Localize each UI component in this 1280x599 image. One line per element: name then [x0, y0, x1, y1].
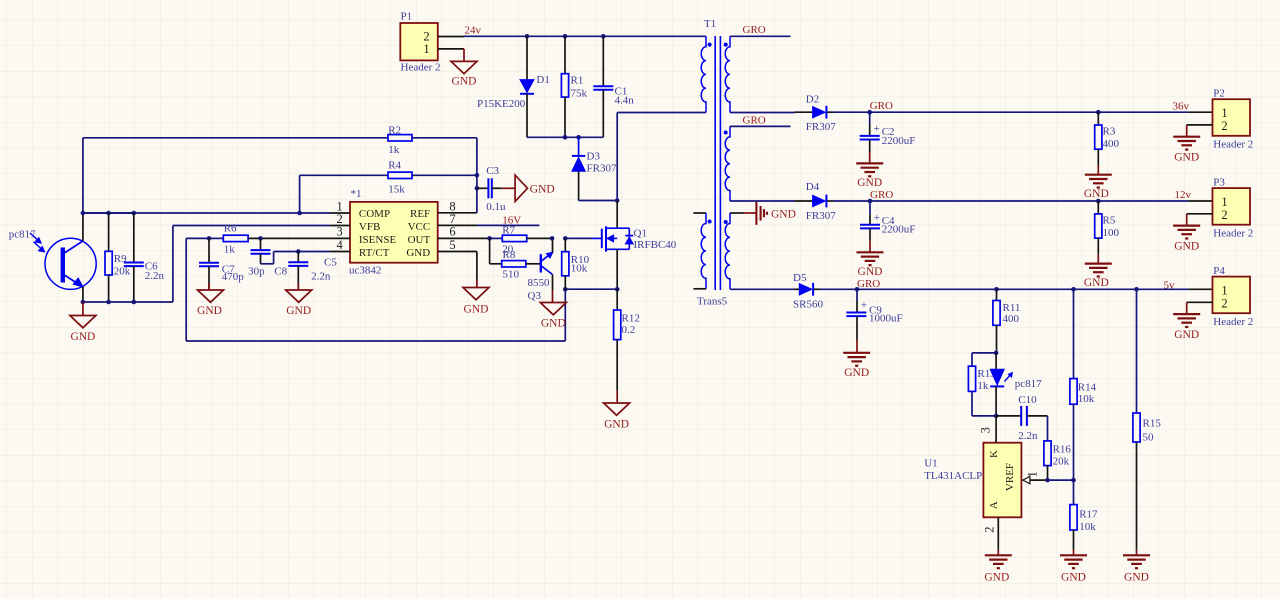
resistor R6 1k [223, 223, 330, 256]
svg-text:R14: R14 [1078, 382, 1097, 394]
capacitor C4 2200uF [860, 201, 915, 241]
pin 1 wire P1 [438, 48, 464, 50]
svg-text:P4: P4 [1213, 265, 1225, 277]
ground GND at R17 [1060, 550, 1087, 584]
svg-text:FR307: FR307 [587, 162, 617, 174]
node junction source/R12 [615, 287, 620, 292]
svg-text:COMP: COMP [359, 208, 390, 220]
resistor R7 20 [490, 225, 552, 256]
diode D3 FR307 [572, 137, 617, 200]
svg-text:GRO: GRO [743, 24, 766, 36]
net label 36v [1173, 101, 1190, 113]
svg-text:2: 2 [1221, 119, 1227, 133]
svg-text:1k: 1k [977, 380, 989, 392]
svg-text:GND: GND [604, 419, 629, 431]
connector P1 (Header 2) [400, 11, 440, 74]
pin 3 ISENSE [330, 225, 350, 239]
node junction R13/LED top [994, 351, 999, 356]
ground GND at R12 [604, 391, 630, 431]
svg-text:Header 2: Header 2 [1213, 316, 1253, 328]
wire 5v row [820, 288, 1188, 290]
svg-text:D1: D1 [536, 74, 549, 86]
transistor Q1 IRFBC40 MOSFET [565, 201, 676, 290]
capacitor C7 470p [199, 238, 244, 290]
svg-text:6: 6 [449, 225, 455, 239]
ground GND at U1 pin2 [984, 550, 1011, 584]
capacitor C9 1000uF [846, 289, 902, 340]
resistor R9 20k [105, 213, 131, 302]
wire R4 drop [299, 175, 301, 213]
resistor R16 20k [1044, 416, 1072, 480]
diode D1 P15KE200 [477, 36, 550, 137]
svg-text:SR560: SR560 [793, 299, 823, 311]
connector P2 (Header 2) [1188, 88, 1253, 151]
svg-text:GND: GND [464, 304, 489, 316]
svg-text:ISENSE: ISENSE [359, 234, 397, 246]
node junction emitter [81, 300, 86, 305]
node junction R16 bottom [1045, 478, 1050, 483]
wire W4 bottom to D4 [730, 200, 795, 202]
pin 4 RT/CT [330, 238, 350, 252]
pin 2 U1 [982, 517, 998, 549]
svg-text:*1: *1 [351, 188, 362, 200]
svg-text:D2: D2 [806, 94, 819, 106]
ground GND at P1 [451, 49, 477, 88]
connector P4 (Header 2) [1188, 265, 1253, 328]
svg-text:C10: C10 [1018, 394, 1037, 406]
svg-text:GND: GND [1174, 152, 1199, 164]
svg-text:P2: P2 [1213, 88, 1225, 100]
wire W1 bottom to drain column [617, 113, 706, 201]
svg-text:5: 5 [449, 238, 455, 252]
LED pc817 (opto diode) [990, 353, 1042, 416]
svg-text:GND: GND [1084, 277, 1109, 289]
pin 3 U1 [979, 416, 996, 443]
svg-text:Header 2: Header 2 [1213, 227, 1253, 239]
svg-text:FR307: FR307 [806, 210, 836, 222]
svg-text:+: + [874, 212, 880, 224]
wire W5 top to signal ground [730, 212, 744, 214]
transistor Q3 8550 [528, 240, 554, 302]
svg-text:20k: 20k [114, 266, 131, 278]
capacitor C5 2.2n [288, 252, 337, 291]
resistor R3 400 [1095, 112, 1120, 165]
node junction drain [615, 198, 620, 203]
wire source row [565, 288, 617, 290]
svg-text:GRO: GRO [857, 278, 880, 290]
net label GRO (C4) [870, 189, 893, 201]
svg-text:U1: U1 [924, 457, 937, 469]
connector P3 (Header 2) [1188, 176, 1253, 239]
resistor R2 1k [83, 124, 477, 213]
node junction R14 top [1071, 287, 1076, 292]
node junction R10 bottom [563, 287, 568, 292]
svg-text:1000uF: 1000uF [869, 313, 903, 325]
ground GND at C4 [857, 241, 884, 278]
svg-text:R16: R16 [1053, 444, 1072, 456]
node junction C5/RTCT [296, 249, 301, 254]
ground GND at P3 [1173, 214, 1212, 253]
ground bar-style GND at W5 [744, 202, 796, 225]
svg-text:2: 2 [337, 212, 343, 226]
wire W5 bottom to D5 [730, 288, 795, 290]
svg-text:GND: GND [844, 367, 869, 379]
ground GND at P2 [1173, 125, 1212, 164]
node junction rail/R1 [563, 135, 568, 140]
pin 6 OUT [438, 225, 490, 239]
svg-text:uc3842: uc3842 [349, 265, 381, 277]
svg-text:GND: GND [858, 266, 883, 278]
svg-text:GND: GND [857, 177, 882, 189]
capacitor C1 4.4n [593, 36, 634, 137]
IC U1 TL431ACLP [924, 443, 1021, 518]
transformer T1 Trans5 core [697, 18, 728, 308]
net label GRO (C2) [870, 100, 893, 112]
svg-text:3: 3 [979, 427, 993, 433]
svg-text:GND: GND [406, 247, 430, 259]
pin 2 VFB [330, 212, 350, 226]
node junction C6 top [132, 211, 137, 216]
svg-text:4: 4 [337, 238, 344, 252]
net label 5v [1164, 279, 1176, 291]
svg-text:A: A [988, 501, 1000, 509]
diode D4 FR307 [795, 181, 837, 222]
svg-text:2: 2 [1221, 208, 1227, 222]
net label 12v [1175, 189, 1192, 201]
svg-text:Q1: Q1 [634, 227, 647, 239]
svg-text:D5: D5 [793, 272, 807, 284]
svg-text:Q3: Q3 [528, 290, 542, 302]
svg-text:T1: T1 [704, 18, 716, 30]
svg-text:R5: R5 [1103, 215, 1116, 227]
wire VCC 16V stub [477, 224, 540, 226]
svg-text:GND: GND [1084, 188, 1109, 200]
wire emitter row [83, 226, 330, 303]
svg-text:R1: R1 [571, 75, 584, 87]
svg-text:RT/CT: RT/CT [359, 247, 390, 259]
node junction C8 [258, 236, 263, 241]
svg-text:Trans5: Trans5 [697, 296, 728, 308]
wire D3 to drain [579, 200, 618, 202]
ground GND at C7 [197, 283, 223, 317]
wire 36v row [834, 111, 1189, 113]
wire snubber bottom rail [527, 136, 603, 138]
svg-text:Header 2: Header 2 [1213, 139, 1253, 151]
resistor R8 510 [490, 238, 540, 280]
capacitor C3 0.1u [477, 165, 506, 213]
svg-text:10k: 10k [1078, 393, 1095, 405]
svg-text:K: K [988, 450, 1000, 458]
svg-text:GRO: GRO [870, 189, 893, 201]
svg-text:VCC: VCC [408, 221, 431, 233]
svg-text:C3: C3 [486, 165, 499, 177]
node junction R4/REF column [475, 173, 480, 178]
svg-text:36v: 36v [1173, 101, 1190, 113]
resistor R15 50 [1133, 289, 1161, 549]
wire REF column [476, 138, 478, 213]
node junction rail/D3 [576, 135, 581, 140]
node junction R5 [1096, 199, 1101, 204]
svg-text:2: 2 [1221, 296, 1227, 310]
svg-text:GND: GND [1124, 571, 1149, 583]
diode D2 FR307 [795, 94, 837, 134]
svg-text:IRFBC40: IRFBC40 [634, 239, 677, 251]
svg-text:D3: D3 [587, 150, 601, 162]
svg-text:510: 510 [503, 268, 520, 280]
svg-text:10k: 10k [571, 263, 588, 275]
wire W1 top to 24v rail [705, 35, 707, 37]
resistor R11 400 [993, 289, 1021, 353]
node junction R15 top [1134, 287, 1139, 292]
node junction R9 bottom [106, 300, 111, 305]
svg-text:GND: GND [530, 183, 555, 195]
transformer winding W4 secondary 12v [724, 126, 730, 201]
node junction 24v/R1 [563, 34, 568, 39]
resistor R13 1k [968, 353, 996, 416]
svg-text:470p: 470p [222, 271, 245, 283]
node junction Q3 emitter [550, 236, 555, 241]
node junction OUT/R8 [487, 236, 492, 241]
pin 5 GND [438, 238, 477, 252]
svg-text:P3: P3 [1213, 176, 1225, 188]
svg-text:10k: 10k [1079, 521, 1096, 533]
svg-text:GND: GND [452, 76, 477, 88]
svg-text:GND: GND [984, 571, 1009, 583]
svg-text:400: 400 [1003, 313, 1020, 325]
resistor R4 15k [300, 159, 477, 195]
node junction collector [81, 211, 86, 216]
resistor R5 100 [1095, 201, 1120, 254]
svg-text:pc817: pc817 [9, 229, 36, 241]
svg-text:OUT: OUT [408, 234, 431, 246]
svg-text:24v: 24v [465, 25, 482, 37]
node junction R3 [1096, 110, 1101, 115]
node junction R4/COMP [297, 211, 302, 216]
svg-text:2.2n: 2.2n [311, 270, 331, 282]
resistor R14 10k [1070, 289, 1097, 480]
svg-text:pc817: pc817 [1015, 378, 1042, 390]
net label 24v [465, 25, 482, 37]
node junction C9 [855, 287, 860, 292]
svg-text:2200uF: 2200uF [882, 135, 916, 147]
svg-text:2: 2 [982, 527, 996, 533]
transformer winding W5 secondary 5v [724, 213, 730, 289]
net label GRO (top) [743, 24, 766, 36]
svg-text:R15: R15 [1143, 418, 1162, 430]
svg-text:50: 50 [1143, 432, 1155, 444]
svg-text:30p: 30p [248, 265, 265, 277]
IC U uc3842 PWM controller [349, 188, 438, 277]
svg-text:D4: D4 [806, 181, 820, 193]
svg-text:GND: GND [70, 331, 95, 343]
svg-text:R4: R4 [388, 159, 401, 171]
svg-text:P15KE200: P15KE200 [477, 98, 526, 110]
wire W3 top GRO stub [730, 35, 791, 37]
svg-text:8550: 8550 [528, 277, 551, 289]
ground GND at P4 [1173, 302, 1212, 341]
node junction C10/pin3 [994, 414, 999, 419]
svg-text:R8: R8 [503, 249, 516, 261]
svg-text:+: + [861, 300, 867, 312]
svg-text:REF: REF [410, 208, 430, 220]
svg-text:5v: 5v [1164, 279, 1176, 291]
capacitor C8 30p [248, 238, 288, 277]
ground GND at C9 [843, 340, 870, 379]
node junction 24v/C1 [601, 34, 606, 39]
svg-text:Header 2: Header 2 [401, 62, 441, 74]
node junction R9 top [106, 211, 111, 216]
node junction R14 bottom [1071, 478, 1076, 483]
svg-text:R7: R7 [502, 225, 515, 237]
wire COMP row [83, 212, 330, 214]
ground GND at C2 [856, 152, 883, 189]
resistor R1 75k [561, 36, 587, 137]
svg-text:C5: C5 [324, 256, 337, 268]
capacitor C2 2200uF [860, 112, 916, 152]
node junction 24v/D1 [525, 34, 530, 39]
resistor R17 10k [1070, 480, 1098, 550]
svg-text:VFB: VFB [359, 221, 380, 233]
svg-text:7: 7 [449, 212, 455, 226]
svg-text:R3: R3 [1103, 126, 1116, 138]
svg-text:R17: R17 [1079, 509, 1098, 521]
svg-text:R6: R6 [224, 223, 237, 235]
net label 16V [502, 215, 521, 227]
svg-text:3: 3 [337, 225, 343, 239]
svg-text:VREF: VREF [1004, 463, 1016, 491]
svg-text:75k: 75k [571, 88, 588, 100]
ground GND at opto [70, 302, 96, 343]
optocoupler pc817 (transistor) [9, 213, 97, 302]
wire C8 to RT/CT [261, 252, 331, 264]
svg-text:1: 1 [423, 42, 429, 56]
svg-text:TL431ACLP: TL431ACLP [924, 470, 982, 482]
net label GRO (winding 4) [743, 114, 766, 126]
svg-text:2.2n: 2.2n [1018, 430, 1038, 442]
svg-text:R12: R12 [622, 313, 640, 325]
svg-text:20k: 20k [1053, 456, 1070, 468]
node junction C3/REF column [475, 186, 480, 191]
pin 1 U1 VREF arrow [1023, 471, 1047, 484]
svg-text:GRO: GRO [743, 114, 766, 126]
svg-text:15k: 15k [388, 183, 405, 195]
node junction C2 [867, 110, 872, 115]
svg-text:GND: GND [541, 318, 566, 330]
wire ISENSE loop [186, 238, 565, 341]
transformer winding W1 primary top [701, 36, 711, 112]
svg-text:2200uF: 2200uF [882, 224, 916, 236]
svg-text:12v: 12v [1175, 189, 1192, 201]
pin 8 REF [438, 199, 477, 213]
wire ISENSE row [209, 237, 223, 239]
svg-text:400: 400 [1103, 138, 1120, 150]
wire 24v rail [464, 35, 706, 37]
svg-text:GRO: GRO [870, 100, 893, 112]
svg-text:0.2: 0.2 [622, 324, 636, 336]
ground GND at R5 [1084, 254, 1112, 289]
capacitor C10 2.2n [996, 394, 1047, 442]
svg-text:1k: 1k [388, 144, 400, 156]
svg-text:P1: P1 [401, 11, 413, 23]
svg-text:4.4n: 4.4n [615, 94, 635, 106]
pin 2 wire P1 [438, 36, 464, 38]
pin 7 VCC [438, 212, 477, 226]
svg-text:GND: GND [771, 208, 796, 220]
svg-text:GND: GND [1174, 240, 1199, 252]
ground GND at R3 [1084, 165, 1112, 200]
capacitor C6 2.2n [124, 213, 165, 302]
svg-text:GND: GND [286, 305, 311, 317]
net label GRO (C9) [857, 278, 880, 290]
wire collector row [83, 212, 134, 214]
wire W4 top GRO stub [730, 125, 791, 127]
svg-text:GND: GND [1174, 329, 1199, 341]
svg-text:0.1u: 0.1u [486, 201, 506, 213]
node junction R11 top [994, 287, 999, 292]
svg-text:R2: R2 [388, 124, 401, 136]
svg-text:FR307: FR307 [806, 121, 836, 133]
diode D5 SR560 [793, 272, 823, 311]
svg-text:GND: GND [1061, 571, 1086, 583]
svg-text:100: 100 [1103, 227, 1120, 239]
ground GND at C5 [286, 283, 312, 317]
resistor R10 10k [562, 238, 590, 289]
wire W3 bottom to D2 [730, 112, 795, 114]
svg-text:1: 1 [1026, 471, 1040, 477]
svg-text:C8: C8 [274, 265, 287, 277]
resistor R12 0.2 [614, 289, 640, 390]
ground GND at R15 [1123, 550, 1150, 584]
node junction C7 [207, 236, 212, 241]
transformer winding W3 secondary 36v [724, 36, 730, 112]
svg-text:+: + [874, 123, 880, 135]
node junction C4 [868, 199, 873, 204]
ground GND at C3 (sideways) [502, 175, 555, 201]
node junction C6 bottom [132, 300, 137, 305]
transformer winding W2 primary bottom (unconnected) [693, 213, 711, 289]
ground GND at Q3 [540, 290, 566, 330]
svg-text:2.2n: 2.2n [145, 270, 165, 282]
wire 12v row [834, 200, 1189, 202]
node junction R10 top [563, 236, 568, 241]
svg-text:GND: GND [197, 305, 222, 317]
ground GND at pin5 [463, 252, 489, 316]
pin 1 COMP [330, 199, 350, 213]
svg-text:1k: 1k [224, 244, 236, 256]
wire pin1 node [1047, 479, 1074, 481]
